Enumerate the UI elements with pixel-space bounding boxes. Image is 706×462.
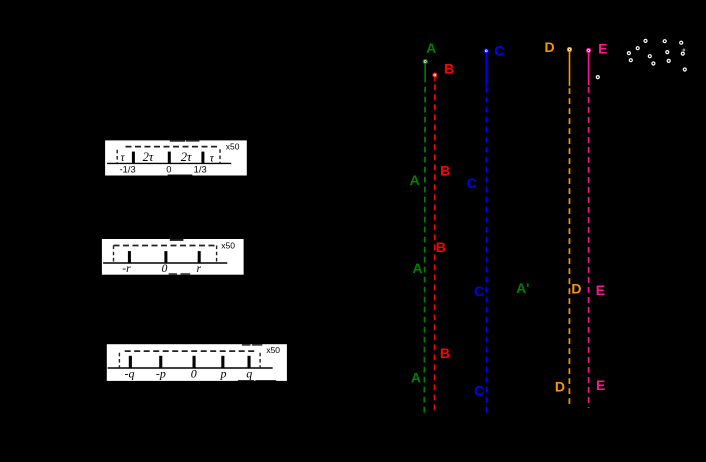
wire solid segment B bbox=[434, 77, 436, 81]
svg-text:p: p bbox=[220, 367, 227, 381]
trajectory C (blue) bbox=[467, 42, 505, 413]
svg-text:-1/3: -1/3 bbox=[120, 163, 136, 174]
wire solid segment C bbox=[485, 53, 487, 86]
svg-text:x50: x50 bbox=[226, 141, 240, 151]
svg-text:q: q bbox=[246, 367, 252, 381]
svg-text:r: r bbox=[197, 263, 202, 275]
svg-text:B: B bbox=[440, 345, 450, 361]
wire solid segment E bbox=[588, 53, 590, 85]
inset box 2 (middle pulse-sequence diagram) bbox=[102, 239, 244, 275]
svg-text:2τ: 2τ bbox=[181, 150, 192, 164]
trajectory D (orange) bbox=[545, 39, 582, 408]
dashed vertical right box 2 bbox=[216, 246, 218, 264]
scatter of white dots (atom cloud) bbox=[596, 39, 686, 78]
svg-text:D: D bbox=[545, 39, 555, 55]
wire solid segment D bbox=[569, 52, 571, 86]
clipped text smudge top of box 2 bbox=[170, 239, 184, 241]
dashed top line box 1 bbox=[126, 146, 218, 148]
dashed vertical left box 1 bbox=[116, 150, 118, 164]
clipped text smudge top of box 1 bbox=[170, 140, 185, 141]
dot 13 bbox=[596, 76, 599, 79]
svg-text:E: E bbox=[596, 377, 605, 393]
dot 7 bbox=[681, 52, 684, 55]
dot 12 bbox=[683, 68, 686, 71]
svg-text:A': A' bbox=[516, 280, 529, 296]
trajectory B (red) bbox=[433, 60, 454, 413]
wire dashed segment D bbox=[568, 88, 570, 408]
pulse 2 box 3 bbox=[159, 356, 162, 368]
svg-text:A: A bbox=[412, 260, 422, 276]
pulse 1 box 1 bbox=[132, 152, 135, 164]
svg-text:2τ: 2τ bbox=[143, 150, 154, 164]
svg-text:0: 0 bbox=[166, 163, 171, 174]
svg-text:x50: x50 bbox=[266, 345, 280, 355]
svg-text:E: E bbox=[598, 40, 607, 56]
baseline axis box 3 bbox=[108, 367, 273, 369]
marker D bbox=[568, 48, 572, 52]
svg-text:C: C bbox=[474, 283, 484, 299]
baseline axis box 1 bbox=[107, 162, 231, 164]
pulse 5 box 3 bbox=[248, 356, 251, 368]
svg-text:C: C bbox=[494, 42, 504, 58]
dot 14 faint bbox=[683, 49, 685, 51]
svg-text:B: B bbox=[444, 60, 454, 76]
dashed top line box 3 bbox=[125, 350, 257, 352]
dot 4 bbox=[636, 47, 639, 50]
svg-text:C: C bbox=[474, 383, 484, 399]
svg-text:A: A bbox=[411, 370, 421, 386]
svg-text:C: C bbox=[467, 175, 477, 191]
svg-text:1/3: 1/3 bbox=[194, 163, 207, 174]
dot 8 bbox=[648, 55, 651, 58]
trajectory A (green) bbox=[410, 40, 530, 413]
wire solid segment A bbox=[424, 64, 426, 83]
marker B bbox=[433, 73, 437, 77]
dot 5 bbox=[627, 52, 630, 55]
svg-text:-q: -q bbox=[125, 367, 135, 381]
svg-text:A: A bbox=[410, 172, 420, 188]
dashed vertical right box 1 bbox=[219, 149, 221, 163]
marker C bbox=[484, 49, 488, 53]
clipped text smudge bottom right of box 3 bbox=[238, 379, 254, 382]
svg-text:B: B bbox=[440, 162, 450, 178]
svg-text:B: B bbox=[436, 239, 446, 255]
dashed vertical left box 3 bbox=[118, 353, 120, 368]
dot 9 bbox=[629, 59, 632, 62]
dot 1 bbox=[644, 39, 647, 42]
inset box 3 (bottom pulse-sequence diagram) bbox=[107, 344, 287, 381]
marker E bbox=[587, 49, 591, 53]
dot 3 bbox=[680, 41, 683, 44]
dashed vertical right box 3 bbox=[259, 353, 261, 368]
svg-text:0: 0 bbox=[191, 367, 197, 381]
pulse 4 box 3 bbox=[221, 356, 224, 368]
clipped text smudge bottom of box 2 bbox=[169, 273, 177, 274]
pulse 1 box 3 bbox=[129, 356, 132, 368]
svg-text:-r: -r bbox=[122, 263, 131, 275]
trajectory E (pink) bbox=[587, 40, 608, 408]
pulse 3 box 3 bbox=[193, 356, 196, 368]
baseline axis box 2 bbox=[103, 262, 227, 264]
clipped text smudge top right of box 3 bbox=[242, 344, 251, 345]
wire dashed segment E bbox=[588, 87, 590, 408]
svg-text:A: A bbox=[426, 40, 436, 56]
wire dashed segment B bbox=[434, 84, 436, 413]
wire dashed segment A bbox=[423, 87, 426, 413]
svg-text:D: D bbox=[571, 281, 581, 297]
pulse 3 box 1 bbox=[201, 152, 204, 164]
dashed vertical left box 2 bbox=[113, 246, 115, 264]
dot 10 bbox=[667, 59, 670, 62]
pulse 1 box 2 bbox=[128, 251, 131, 263]
svg-text:-p: -p bbox=[156, 367, 166, 381]
svg-text:E: E bbox=[596, 282, 605, 298]
svg-text:x50: x50 bbox=[221, 241, 235, 251]
pulse 2 box 1 bbox=[168, 152, 171, 164]
svg-text:0: 0 bbox=[162, 263, 168, 275]
dashed top line box 2 bbox=[114, 245, 217, 247]
clipped text smudge bottom of box 1 bbox=[168, 175, 193, 176]
dot 6 bbox=[666, 51, 669, 54]
wire dashed segment C bbox=[485, 87, 487, 414]
dot 2 bbox=[663, 40, 666, 43]
pulse 2 box 2 bbox=[164, 251, 167, 263]
marker A bbox=[423, 60, 427, 64]
inset box 1 (top pulse-sequence diagram) bbox=[105, 140, 247, 175]
dot 11 bbox=[652, 62, 655, 65]
svg-text:D: D bbox=[555, 378, 565, 394]
pulse 3 box 2 bbox=[198, 251, 201, 263]
